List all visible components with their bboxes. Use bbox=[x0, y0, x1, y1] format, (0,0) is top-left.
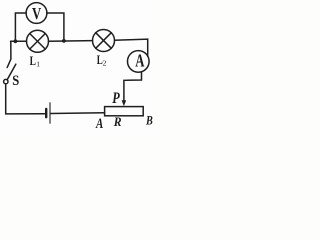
lamp L1 bbox=[27, 30, 49, 52]
svg-text:A: A bbox=[135, 51, 144, 71]
svg-text:S: S bbox=[12, 73, 19, 89]
battery long plate (+) bbox=[49, 103, 51, 124]
svg-text:R: R bbox=[113, 115, 122, 129]
svg-text:A: A bbox=[95, 116, 103, 132]
wire: between L1 and L2 bbox=[49, 40, 93, 43]
svg-text:2: 2 bbox=[103, 58, 107, 67]
wire: main horizontal left segment to lamp L1 bbox=[11, 40, 27, 42]
battery short plate (-) bbox=[45, 109, 47, 117]
junction node left bbox=[14, 39, 18, 43]
rheostat slider arrowhead P bbox=[122, 100, 127, 106]
svg-text:1: 1 bbox=[36, 60, 40, 69]
wire: L2 to top-right corner down to ammeter bbox=[115, 39, 148, 56]
junction node right bbox=[62, 39, 66, 43]
svg-text:B: B bbox=[145, 114, 153, 128]
svg-text:L: L bbox=[30, 53, 37, 68]
wire: voltmeter left lead bbox=[15, 13, 26, 41]
wire: ammeter bottom to slider arrow bbox=[124, 72, 142, 101]
switch S blade bbox=[7, 64, 16, 79]
svg-text:V: V bbox=[32, 4, 42, 23]
rheostat R body bbox=[105, 107, 144, 116]
ammeter A1 circle bbox=[128, 51, 150, 73]
wire: bottom left rail to battery bbox=[6, 84, 46, 114]
svg-text:P: P bbox=[112, 90, 120, 107]
switch S pivot circle bbox=[4, 79, 8, 83]
wire: battery to rheostat left end A bbox=[51, 112, 105, 115]
wire: voltmeter right lead bbox=[47, 13, 64, 41]
wire: switch top terminal up to main wire bbox=[7, 41, 11, 67]
voltmeter V1 circle bbox=[26, 3, 47, 24]
lamp L2 bbox=[93, 30, 115, 52]
